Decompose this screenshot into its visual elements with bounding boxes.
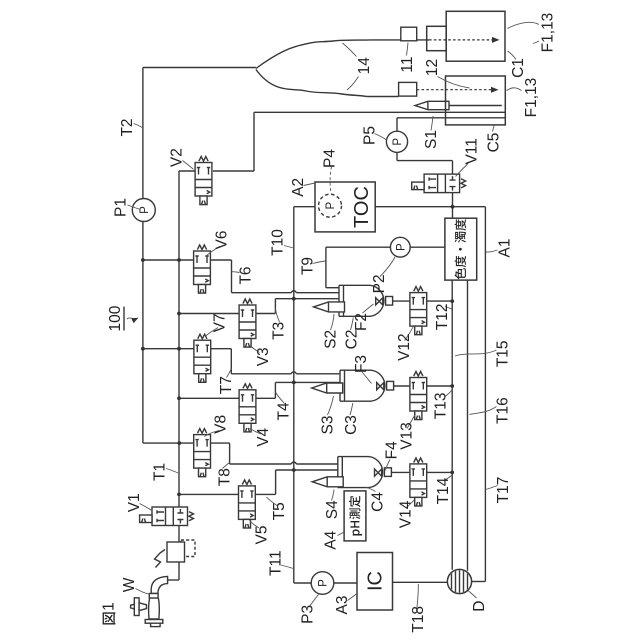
svg-text:T3: T3 bbox=[270, 322, 287, 340]
svg-text:S1: S1 bbox=[423, 130, 440, 149]
svg-text:T12: T12 bbox=[434, 304, 451, 331]
svg-text:T10: T10 bbox=[269, 229, 286, 256]
svg-text:D: D bbox=[471, 600, 488, 611]
svg-text:P5: P5 bbox=[362, 126, 379, 145]
svg-text:V7: V7 bbox=[211, 313, 228, 332]
svg-text:V14: V14 bbox=[398, 500, 415, 528]
svg-text:S4: S4 bbox=[324, 500, 341, 519]
svg-text:T14: T14 bbox=[435, 477, 452, 504]
svg-text:V3: V3 bbox=[255, 347, 272, 366]
svg-text:TOC: TOC bbox=[351, 186, 373, 228]
svg-text:V11: V11 bbox=[463, 138, 480, 164]
svg-text:V1: V1 bbox=[126, 493, 143, 512]
svg-text:P: P bbox=[139, 206, 151, 214]
svg-text:14: 14 bbox=[356, 57, 373, 75]
svg-text:11: 11 bbox=[399, 57, 416, 73]
svg-text:12: 12 bbox=[424, 59, 441, 76]
svg-text:C2: C2 bbox=[344, 329, 361, 349]
svg-text:A1: A1 bbox=[497, 239, 514, 258]
svg-text:F4: F4 bbox=[384, 441, 401, 459]
svg-text:T18: T18 bbox=[410, 606, 427, 633]
svg-text:P: P bbox=[392, 138, 404, 146]
svg-text:T13: T13 bbox=[433, 393, 450, 420]
svg-text:V6: V6 bbox=[214, 231, 231, 250]
svg-text:T7: T7 bbox=[218, 376, 235, 394]
svg-text:V8: V8 bbox=[212, 415, 229, 434]
svg-text:F3: F3 bbox=[353, 355, 370, 373]
svg-text:V12: V12 bbox=[396, 333, 413, 361]
svg-text:F1,13: F1,13 bbox=[540, 13, 557, 53]
svg-text:P: P bbox=[318, 579, 330, 587]
svg-text:A4: A4 bbox=[323, 530, 340, 549]
svg-text:1: 1 bbox=[101, 602, 118, 611]
svg-text:V5: V5 bbox=[253, 526, 270, 545]
svg-text:T9: T9 bbox=[299, 257, 316, 275]
svg-text:T17: T17 bbox=[495, 477, 512, 504]
svg-text:P: P bbox=[325, 202, 337, 210]
svg-text:T6: T6 bbox=[238, 266, 255, 284]
svg-text:S2: S2 bbox=[323, 330, 340, 349]
svg-text:V2: V2 bbox=[168, 148, 185, 167]
svg-text:T8: T8 bbox=[216, 468, 233, 486]
svg-text:100: 100 bbox=[107, 305, 124, 331]
svg-text:W: W bbox=[121, 577, 138, 592]
svg-text:P4: P4 bbox=[322, 149, 339, 168]
svg-text:T16: T16 bbox=[495, 397, 512, 424]
svg-text:A2: A2 bbox=[290, 178, 307, 197]
svg-text:C1: C1 bbox=[510, 58, 527, 78]
svg-text:V4: V4 bbox=[255, 427, 272, 446]
svg-text:F1,13: F1,13 bbox=[523, 78, 540, 118]
svg-text:P3: P3 bbox=[299, 605, 316, 624]
svg-text:T15: T15 bbox=[495, 340, 512, 367]
svg-text:T11: T11 bbox=[268, 550, 285, 576]
svg-text:F2: F2 bbox=[353, 313, 370, 331]
svg-text:T1: T1 bbox=[151, 463, 168, 481]
svg-text:C4: C4 bbox=[370, 492, 387, 512]
svg-text:P1: P1 bbox=[113, 198, 130, 217]
svg-text:C3: C3 bbox=[343, 415, 360, 435]
svg-text:T5: T5 bbox=[271, 502, 288, 520]
svg-text:V13: V13 bbox=[399, 422, 416, 450]
svg-text:P2: P2 bbox=[371, 274, 388, 293]
svg-text:T2: T2 bbox=[119, 118, 136, 136]
svg-text:T4: T4 bbox=[275, 402, 292, 420]
svg-text:C5: C5 bbox=[486, 133, 503, 153]
svg-text:S3: S3 bbox=[320, 416, 337, 435]
svg-text:IC: IC bbox=[365, 571, 387, 591]
svg-text:P: P bbox=[396, 243, 408, 251]
svg-text:A3: A3 bbox=[334, 596, 351, 615]
